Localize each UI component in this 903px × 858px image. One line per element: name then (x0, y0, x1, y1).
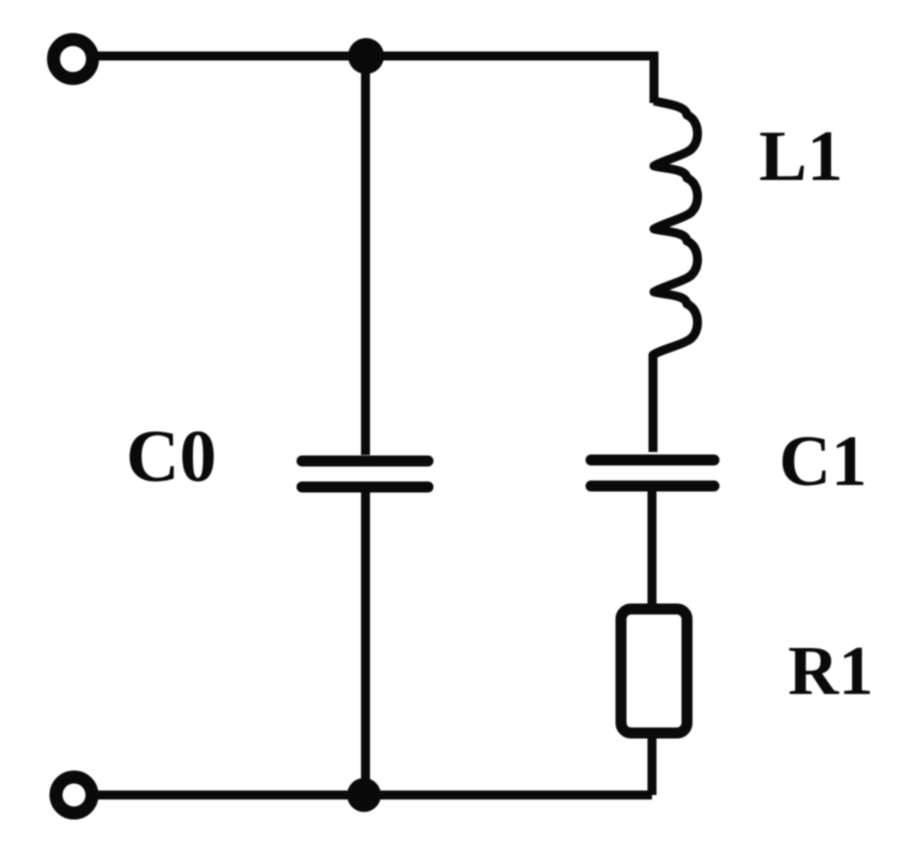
svg-text:L1: L1 (759, 116, 843, 196)
svg-text:C0: C0 (126, 416, 216, 498)
svg-text:C1: C1 (779, 421, 867, 501)
svg-text:R1: R1 (788, 633, 874, 710)
